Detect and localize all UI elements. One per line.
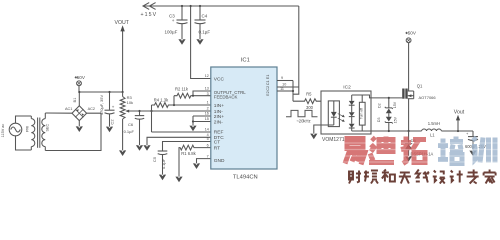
IC U1 TL494CN body [211, 57, 277, 180]
watermark row2 maroon char she [349, 171, 361, 184]
svg-text:C2: C2 [110, 119, 115, 125]
svg-text:C4: C4 [202, 14, 208, 19]
wire +50V to Q1 drain [408, 43, 410, 91]
capacitor C3 [165, 6, 188, 39]
ground C5 [159, 175, 166, 181]
node Vout arrow [454, 109, 465, 131]
svg-text:R5: R5 [306, 92, 312, 97]
wire secondary to bridge AC1 [45, 112, 72, 114]
ground DTC [143, 145, 150, 151]
watermark row2 maroon char pin [364, 171, 378, 184]
IC2 emission arrows [338, 114, 345, 122]
svg-text:2IN-: 2IN- [214, 119, 223, 125]
junction dot wiper/C6 [138, 110, 152, 112]
junction dots zener line [388, 97, 390, 132]
watermark row2 maroon char jia [484, 170, 496, 184]
svg-text:14: 14 [205, 128, 209, 132]
ground pin7 [193, 163, 200, 169]
svg-text:REF: REF [214, 130, 224, 136]
svg-text:1IN+: 1IN+ [214, 103, 224, 109]
wire LED return to ground [314, 125, 334, 134]
svg-text:R4 1.3k: R4 1.3k [154, 97, 169, 102]
node VOUT feedback arrow [115, 20, 130, 92]
svg-text:SEC: SEC [45, 123, 49, 131]
resistor R2 11k [174, 86, 211, 105]
watermark row1 red char yi [345, 139, 365, 165]
svg-text:9: 9 [281, 76, 283, 80]
svg-text:C6: C6 [128, 122, 134, 127]
waveform annotation ~20kHz [286, 110, 318, 123]
node +50V right [405, 31, 417, 43]
svg-text:10k: 10k [127, 100, 133, 105]
svg-text:470µF, 35V: 470µF, 35V [99, 95, 104, 116]
junction rail dots [181, 5, 201, 7]
watermark row1 red char tuo [401, 137, 426, 164]
ground C4 [196, 39, 203, 45]
watermark row2 maroon char tian [399, 173, 411, 184]
IC2 turn-off block [359, 95, 365, 131]
svg-text:12: 12 [205, 74, 209, 78]
svg-text:+: + [172, 18, 175, 23]
capacitor C4 [195, 6, 211, 39]
IC1 pin numbers [205, 74, 287, 158]
svg-text:AC2: AC2 [88, 107, 95, 111]
svg-text:11: 11 [280, 87, 284, 91]
IC2 photodiode stack [349, 95, 355, 131]
capacitor C2 470uF [99, 92, 115, 127]
svg-text:R1 6.8k: R1 6.8k [181, 151, 196, 156]
svg-text:PRI: PRI [26, 126, 30, 132]
wire secondary to bridge AC2 [45, 113, 101, 150]
ground C6 [136, 145, 143, 151]
watermark row2 maroon char he [382, 170, 395, 182]
svg-text:~20kHz: ~20kHz [296, 119, 310, 124]
svg-text:+: + [466, 131, 469, 136]
potentiometer R3 10k [120, 92, 133, 150]
svg-text:0.1µF: 0.1µF [199, 30, 211, 35]
wire +15V top rail [143, 5, 299, 7]
svg-text:115V ac: 115V ac [1, 124, 5, 138]
zener D2 [377, 98, 397, 117]
svg-text:C1: C1 [265, 80, 270, 85]
zener D3 [377, 116, 398, 131]
watermark row1 blue char pei [438, 137, 463, 164]
svg-text:7: 7 [207, 154, 209, 158]
ground C2 [106, 127, 113, 133]
svg-text:IC2: IC2 [343, 85, 351, 91]
svg-text:E2: E2 [265, 91, 270, 96]
ground 2IN tie [189, 126, 196, 132]
svg-text:6: 6 [207, 143, 209, 147]
wire output pins 9/11 tie [277, 81, 294, 102]
ground D5 [405, 156, 412, 162]
svg-text:16: 16 [205, 112, 209, 116]
wire 2IN- pin15 tied and grounded [192, 116, 211, 126]
svg-text:15V: 15V [394, 116, 398, 123]
svg-text:B1: B1 [73, 98, 77, 103]
svg-text:1.5mH: 1.5mH [428, 121, 440, 126]
transformer T1 primary [26, 116, 35, 150]
svg-text:VOM1271: VOM1271 [322, 137, 345, 143]
svg-text:IC1: IC1 [241, 57, 250, 63]
wire +50V rail to divider [79, 91, 123, 93]
inductor L1 1.5mH [422, 121, 442, 137]
wire DTC pin4 [147, 137, 211, 145]
svg-text:Vout: Vout [454, 109, 465, 115]
diode D5 freewheel [405, 131, 434, 156]
svg-text:300: 300 [306, 105, 314, 110]
node +50V left [74, 75, 86, 106]
ground C7 [469, 151, 476, 157]
ground LED return [310, 134, 317, 140]
IC1 left pin labels [214, 76, 247, 163]
svg-text:0.1µF: 0.1µF [124, 129, 135, 134]
svg-text:1: 1 [207, 101, 209, 105]
watermark row2 maroon char zhuan [467, 170, 479, 184]
resistor R4 1.3k [152, 97, 175, 107]
svg-text:RT: RT [214, 145, 220, 151]
svg-text:CT: CT [214, 139, 220, 145]
svg-text:R2 11k: R2 11k [175, 86, 189, 91]
transistor Q1 AOT7066 mosfet [402, 83, 436, 100]
wire wiper to 1IN- pin2 [129, 110, 211, 112]
svg-text:13: 13 [205, 87, 209, 91]
watermark row2 maroon char ji [450, 171, 463, 183]
ground C3 [178, 39, 185, 45]
svg-text:E1: E1 [265, 75, 270, 80]
wire R4 to 1IN+ pin1 [173, 104, 211, 106]
wire REF pin14 [152, 131, 211, 133]
svg-text:0.1µF: 0.1µF [161, 158, 166, 169]
svg-text:D3: D3 [377, 117, 381, 122]
svg-text:100µF: 100µF [165, 30, 178, 35]
wire output pin 10 to rail [277, 86, 299, 88]
svg-text:5: 5 [207, 137, 209, 141]
capacitor C5 0.1uF on CT [152, 142, 211, 175]
IC2 LED input [328, 101, 339, 127]
svg-text:D2: D2 [377, 103, 381, 108]
svg-text:2: 2 [207, 107, 209, 111]
resistor R1 6.8k on RT [179, 145, 211, 176]
transformer T1 core [38, 118, 40, 148]
wire 2IN+ pin16 [193, 115, 211, 117]
AC source 115V [1, 123, 22, 137]
wire rail right drop to output pins [293, 6, 299, 94]
wire R4/REF vertical link [151, 105, 153, 132]
svg-text:FEEDBACK: FEEDBACK [214, 95, 238, 100]
svg-text:15: 15 [205, 117, 209, 121]
optocoupler IC2 VOM1271 body [321, 85, 371, 143]
node +15V label [141, 12, 158, 18]
ground bridge [76, 121, 83, 132]
capacitor C6 0.1uF [124, 111, 145, 145]
wire Q1 source down to rail [408, 99, 410, 132]
svg-text:Q1: Q1 [417, 83, 423, 88]
bridge rectifier B1 [62, 98, 95, 121]
svg-text:Turn off: Turn off [359, 108, 363, 119]
ground R1 [175, 177, 182, 183]
watermark row1 blue char xun [472, 138, 495, 163]
svg-text:GND: GND [214, 158, 225, 164]
svg-text:C2: C2 [265, 86, 270, 91]
svg-text:C5: C5 [152, 156, 157, 162]
watermark row1 texture stripes [342, 143, 498, 162]
IC1 right pin labels E1 C1 C2 E2 [265, 75, 270, 96]
svg-text:+: + [112, 105, 115, 110]
svg-text:VOUT: VOUT [115, 20, 130, 26]
svg-text:+15V: +15V [141, 12, 158, 18]
svg-text:AOT7066: AOT7066 [419, 95, 437, 100]
wire pin13 tie to feedback [192, 91, 211, 97]
svg-text:L1: L1 [430, 132, 435, 137]
watermark row2 maroon char she2 [433, 171, 445, 184]
transformer T1 secondary [42, 113, 50, 151]
svg-text:3: 3 [207, 92, 209, 96]
watermark row2 maroon char xian [416, 170, 429, 183]
resistor R5 300 [293, 92, 321, 110]
wire VCC drop to pin 12 [191, 6, 211, 79]
wire L1 to output [441, 130, 473, 132]
svg-text:15V: 15V [393, 101, 397, 108]
ground R3 [119, 150, 126, 156]
svg-text:2IN+: 2IN+ [214, 114, 224, 120]
wire IC2 top output to gate [352, 95, 403, 98]
+15V rail arrowheads [143, 3, 156, 10]
wire GND pin7 [197, 159, 211, 164]
watermark row1 red char di [369, 137, 394, 163]
svg-text:TL494CN: TL494CN [233, 174, 258, 180]
capacitor C7 output [465, 131, 486, 151]
junction dots 50V rail [78, 91, 123, 93]
svg-text:VCC: VCC [214, 76, 225, 82]
svg-text:AC1: AC1 [65, 107, 72, 111]
wire AC source to primary [16, 116, 32, 150]
wire IC2 bottom output rail [352, 130, 422, 132]
